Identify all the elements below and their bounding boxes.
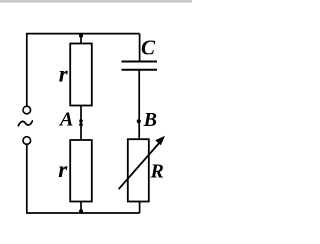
junction dot (top of middle branch) <box>79 34 83 38</box>
AC source tilde symbol <box>18 121 32 126</box>
wire: top horizontal <box>26 33 140 35</box>
capacitor C bottom plate <box>122 69 158 71</box>
resistor r2 (lower box) <box>70 140 92 202</box>
wire: right branch middle (cap to rheostat) <box>138 70 140 139</box>
rheostat arrow shaft <box>119 142 161 190</box>
wire: left vertical lower <box>26 145 28 213</box>
capacitor C top plate <box>122 61 158 63</box>
resistor r1 (upper box) <box>70 44 92 106</box>
svg-text:B: B <box>143 109 157 131</box>
svg-text:C: C <box>141 35 156 59</box>
junction dot (bottom of middle branch) <box>79 209 83 213</box>
AC source terminal (upper circle) <box>23 106 31 114</box>
wire: left vertical upper (to source) <box>26 34 28 106</box>
AC source terminal (lower circle) <box>23 137 31 145</box>
node B dot <box>137 119 141 123</box>
wire: right branch top lead <box>139 34 141 61</box>
rheostat R box <box>128 139 149 201</box>
svg-text:r: r <box>59 61 69 86</box>
svg-text:r: r <box>58 157 68 182</box>
wire: middle branch between resistors <box>80 106 82 141</box>
node A dots <box>79 119 83 123</box>
wire: middle branch top lead <box>80 34 82 44</box>
top gray divider bar <box>0 0 192 3</box>
rheostat arrowhead <box>155 136 165 145</box>
svg-text:A: A <box>58 109 73 131</box>
svg-text:R: R <box>150 161 164 183</box>
wire: middle branch bottom lead <box>80 202 82 214</box>
wire: bottom horizontal <box>26 212 140 214</box>
wire: right branch bottom lead <box>139 202 141 214</box>
